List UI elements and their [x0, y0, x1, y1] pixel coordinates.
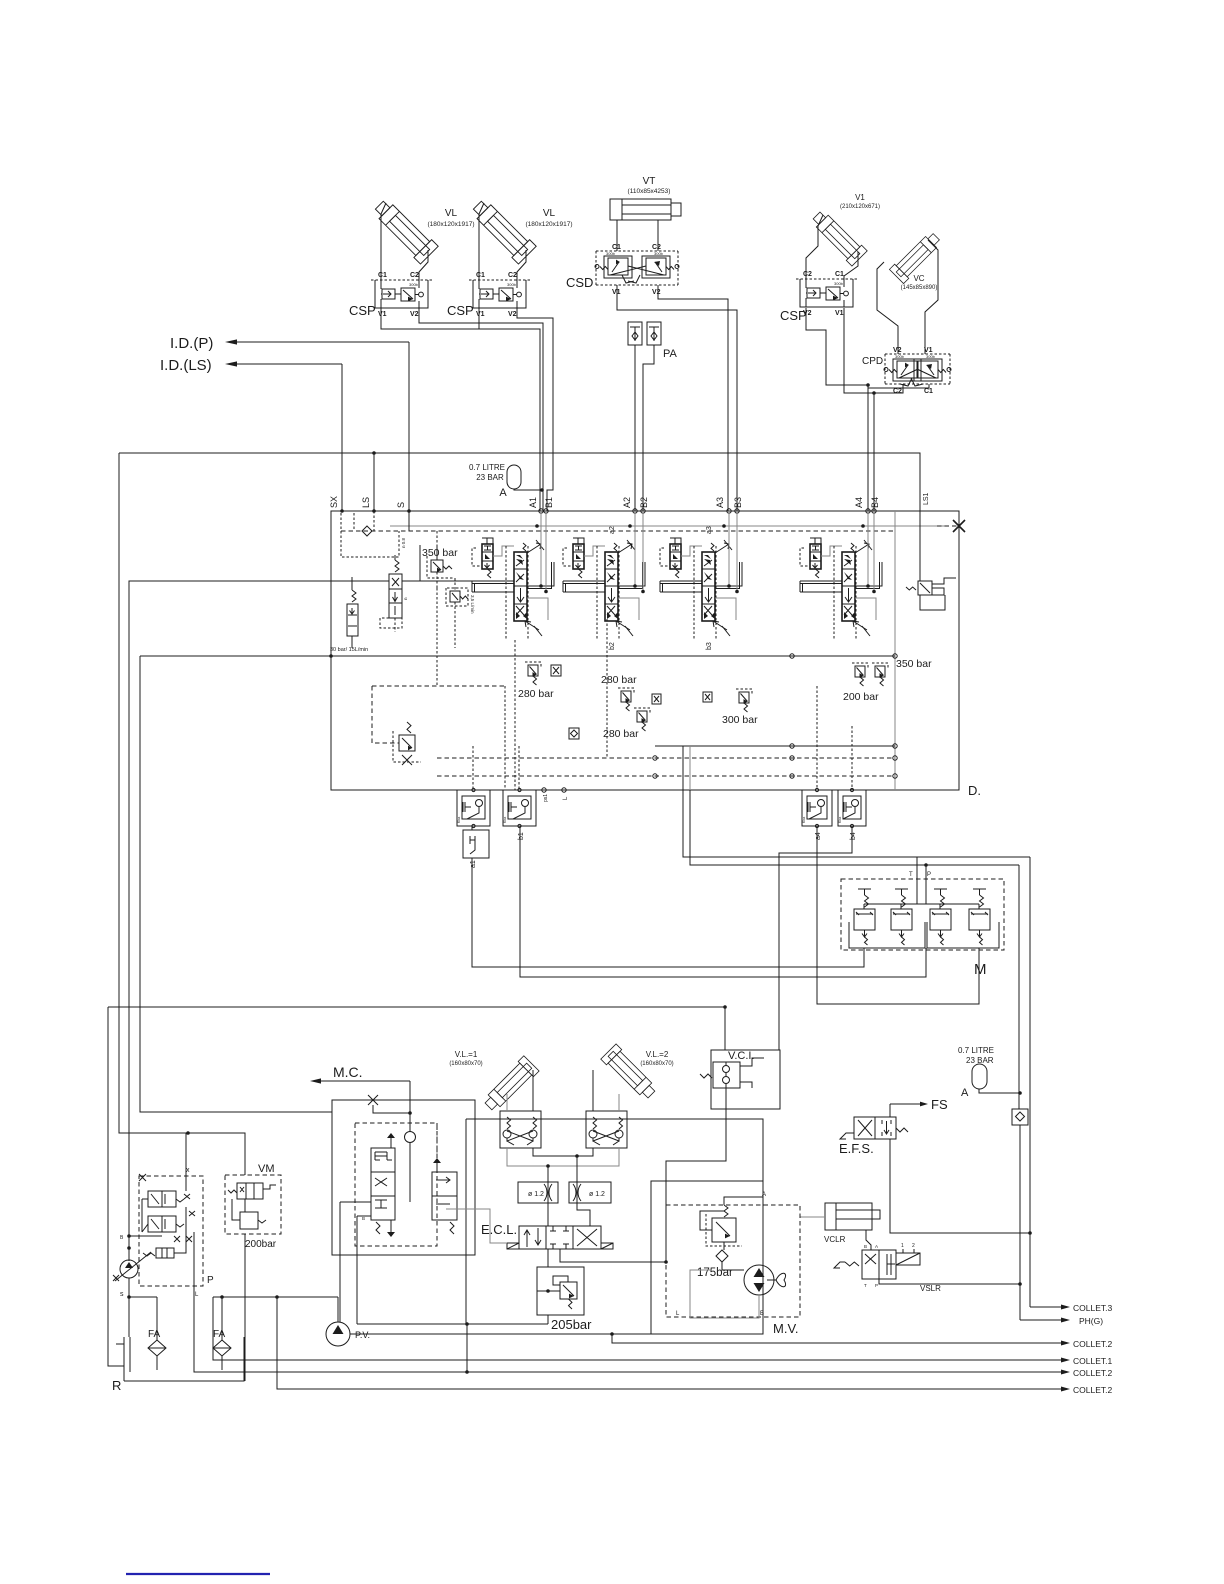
VCI box — [711, 1050, 780, 1109]
svg-text:175bar: 175bar — [697, 1267, 733, 1279]
cylinder V1 — [809, 208, 867, 266]
arrow I.D.(P) — [225, 339, 237, 344]
P block dashed box — [139, 1176, 203, 1286]
wire CSP1 V2 to A1b — [419, 308, 543, 511]
M T P drop — [916, 857, 918, 904]
M reducing valve 1 — [854, 909, 875, 930]
svg-text:C1: C1 — [378, 272, 387, 279]
manifold plug X — [937, 525, 959, 527]
cylinder VL2 — [468, 196, 536, 264]
svg-text:b4: b4 — [850, 832, 857, 840]
wire VCA to 205 line — [356, 1216, 358, 1324]
svg-text:ø 1.2: ø 1.2 — [528, 1191, 544, 1198]
manifold port dots SX LS S — [340, 509, 344, 513]
svg-text:30 bar/ 15L/min: 30 bar/ 15L/min — [330, 647, 368, 653]
tank bottom line — [130, 1337, 244, 1381]
wire PA1 to A2 — [634, 345, 636, 511]
svg-text:VL: VL — [543, 208, 556, 219]
svg-text:P: P — [875, 1283, 878, 1288]
svg-text:P: P — [207, 1275, 214, 1286]
svg-text:V.C.I.: V.C.I. — [728, 1050, 755, 1062]
svg-text:300b: 300b — [926, 354, 936, 359]
wire P bus — [690, 790, 1019, 865]
valve section 1 — [482, 544, 493, 569]
pilot dash network left — [372, 685, 505, 687]
wire PV suction — [337, 1297, 339, 1322]
wire PH(G) — [1020, 1319, 1062, 1321]
svg-text:C2: C2 — [803, 271, 812, 278]
wire COLLET.2b — [194, 1286, 1062, 1372]
svg-text:a1: a1 — [470, 860, 477, 868]
wire P riser lower — [1019, 1125, 1021, 1320]
anticav box sec3 — [703, 692, 712, 702]
svg-text:300 bar: 300 bar — [722, 714, 758, 726]
cylinder VC — [889, 230, 943, 284]
orifice box 2 — [569, 1182, 611, 1203]
wire left lower riser — [108, 1007, 124, 1366]
svg-text:A: A — [875, 1244, 878, 1249]
port circles A1 B1 — [539, 509, 543, 513]
svg-text:M.V.: M.V. — [773, 1321, 799, 1336]
relief 280bar sec2b — [637, 711, 647, 722]
svg-text:FA: FA — [148, 1329, 161, 1340]
valve block VL2 — [586, 1111, 627, 1148]
valve block CSP2 — [473, 280, 526, 308]
svg-text:(210x120x671): (210x120x671) — [840, 204, 880, 210]
svg-text:B3: B3 — [733, 497, 743, 508]
svg-text:a2: a2 — [609, 526, 616, 534]
M sub-rect left — [849, 922, 925, 948]
svg-text:COLLET.2: COLLET.2 — [1073, 1368, 1112, 1378]
cylinder VL=2 — [601, 1044, 659, 1102]
wire bus3 vci — [108, 1007, 725, 1050]
svg-text:C1: C1 — [924, 388, 933, 395]
svg-text:M: M — [974, 961, 987, 978]
svg-text:300b: 300b — [606, 251, 616, 256]
svg-text:CSP: CSP — [447, 303, 474, 318]
relief 350bar sec4a — [855, 666, 865, 677]
tank R — [123, 1337, 125, 1372]
valve block CSP3 — [800, 279, 853, 307]
205bar box — [537, 1267, 584, 1315]
cylinder VL=1 — [481, 1056, 539, 1114]
port ps1 — [542, 788, 546, 792]
wire T riser — [1029, 857, 1031, 1233]
port L — [562, 788, 566, 792]
wire a4 chain — [817, 826, 979, 1004]
svg-text:CSP: CSP — [780, 308, 807, 323]
pilot dashed riser — [436, 531, 438, 560]
valve section 4 — [810, 544, 821, 569]
M reducing valve 3 — [930, 909, 951, 930]
VCA outer box — [332, 1100, 475, 1255]
svg-text:R: R — [112, 1378, 121, 1393]
svg-text:T: T — [864, 1283, 867, 1288]
svg-text:B2: B2 — [639, 497, 649, 508]
wire PV out — [350, 1333, 612, 1335]
svg-text:FA: FA — [213, 1329, 226, 1340]
svg-text:LS1: LS1 — [923, 492, 930, 505]
svg-text:E.C.L.: E.C.L. — [481, 1222, 517, 1237]
svg-text:a4: a4 — [815, 832, 822, 840]
svg-text:300b: 300b — [895, 354, 905, 359]
svg-text:200bar: 200bar — [245, 1239, 277, 1250]
svg-text:(160x80x70): (160x80x70) — [640, 1061, 673, 1067]
svg-text:300b: 300b — [834, 281, 844, 286]
svg-text:C1: C1 — [476, 272, 485, 279]
wire MC down — [409, 1081, 411, 1113]
inlet diamond check — [362, 526, 372, 536]
manifold block D outline — [331, 511, 959, 790]
inlet spool — [389, 574, 402, 618]
svg-text:350 bar: 350 bar — [896, 658, 932, 670]
VCA out to ECL — [446, 1208, 468, 1210]
work port wires section1 — [540, 511, 542, 586]
wire tank riser to VCA — [140, 656, 332, 1112]
wire CPD C2 to B4 — [874, 384, 903, 393]
svg-text:b2: b2 — [609, 642, 616, 650]
svg-text:280 bar: 280 bar — [518, 688, 554, 700]
P solenoid valve 2 — [148, 1216, 176, 1232]
svg-text:COLLET.2: COLLET.2 — [1073, 1385, 1112, 1395]
cylinder VT — [610, 199, 671, 220]
svg-text:S: S — [396, 502, 406, 508]
wire CSP2 V1 down — [478, 308, 480, 329]
manifold LS gray bus — [390, 525, 945, 527]
M internal bus — [864, 903, 979, 905]
anticav diamond box — [569, 728, 579, 739]
svg-text:(180x120x1917): (180x120x1917) — [428, 221, 475, 228]
wire CPD C1 to A4 — [868, 384, 929, 388]
svg-text:(160x80x70): (160x80x70) — [449, 1061, 482, 1067]
wire I.D.(LS) to SX — [341, 364, 343, 511]
P spring box — [156, 1248, 174, 1258]
VCA check circle — [405, 1132, 416, 1143]
svg-text:I.D.(LS): I.D.(LS) — [160, 357, 212, 374]
unloading valve 30bar — [347, 604, 358, 636]
svg-text:V2: V2 — [893, 347, 902, 354]
wire motor buses — [507, 1148, 619, 1166]
inlet dashed box — [341, 513, 399, 557]
svg-text:CSP: CSP — [349, 303, 376, 318]
wire accumulator A to A1 — [514, 489, 542, 490]
wire EFS down — [890, 1139, 1030, 1233]
work port wires section3 — [728, 511, 730, 586]
svg-text:B1: B1 — [544, 497, 554, 508]
cylinder VCLR — [825, 1203, 872, 1230]
svg-text:C2: C2 — [410, 272, 419, 279]
VCA spool2 — [432, 1172, 457, 1220]
pilot dash to b1 — [518, 746, 520, 789]
svg-text:COLLET.3: COLLET.3 — [1073, 1303, 1112, 1313]
wire VC to CPD — [877, 262, 898, 354]
gauge PA2 — [647, 322, 661, 345]
svg-text:SX: SX — [329, 496, 339, 508]
svg-text:COLLET.2: COLLET.2 — [1073, 1339, 1112, 1349]
svg-text:Kba: Kba — [838, 817, 842, 823]
wire 205bar bottom — [547, 1315, 549, 1324]
pilot dash to a1 — [472, 746, 474, 789]
arrow I.D.(LS) — [225, 361, 237, 366]
svg-text:300b: 300b — [654, 251, 664, 256]
svg-text:V1: V1 — [612, 289, 621, 296]
relief 350bar main — [431, 560, 443, 572]
svg-text:Kba: Kba — [457, 817, 461, 823]
wire VT to CSD — [616, 220, 618, 251]
wire T bus — [683, 790, 1030, 857]
manifold dashed lower bus1 — [437, 757, 895, 759]
wire pump P riser — [129, 581, 331, 1261]
svg-text:C1: C1 — [835, 271, 844, 278]
svg-text:C2: C2 — [508, 272, 517, 279]
VM second valve — [240, 1212, 258, 1229]
svg-text:VC: VC — [913, 274, 924, 283]
manifold tank bus — [140, 655, 895, 657]
svg-text:x: x — [186, 1167, 190, 1174]
wire MV B bottom — [612, 1333, 651, 1335]
wire VCA to PV — [339, 1202, 341, 1322]
svg-text:A2: A2 — [622, 497, 632, 508]
valve block VL1 — [500, 1111, 541, 1148]
svg-text:CPD: CPD — [862, 356, 883, 367]
manifold mid bus2 — [655, 745, 895, 747]
wire VL2 cyl — [592, 1070, 594, 1111]
wire V1 to CSP3 — [806, 215, 823, 279]
cylinder VL1 — [370, 196, 438, 264]
svg-text:b3: b3 — [706, 642, 713, 650]
M reducing valve 2 — [891, 909, 912, 930]
valve block CSP1 — [375, 280, 428, 308]
wire S stub — [408, 511, 410, 531]
relief 300bar sec3 — [739, 692, 749, 703]
suction manifold line — [213, 1296, 338, 1298]
svg-text:VCLR: VCLR — [824, 1235, 846, 1244]
VM dashed box — [225, 1175, 281, 1234]
svg-text:(110x85x4253): (110x85x4253) — [628, 188, 671, 195]
wire COLLET.2c — [277, 1297, 1062, 1389]
svg-text:CSD: CSD — [566, 275, 593, 290]
svg-text:COLLET.1: COLLET.1 — [1073, 1356, 1112, 1366]
svg-text:PA: PA — [663, 348, 678, 360]
wire I.D.(P) to S — [408, 342, 410, 511]
wire CSP3 V2 to A4 — [806, 308, 868, 511]
svg-text:ø 1.2: ø 1.2 — [589, 1191, 605, 1198]
VCA X mark — [368, 1095, 378, 1105]
svg-text:V.L.=1: V.L.=1 — [455, 1050, 478, 1059]
wire COLLET.1 — [213, 1297, 1062, 1360]
wire PA2 to B2 — [643, 345, 654, 511]
svg-text:V2: V2 — [652, 289, 661, 296]
valve block CPD — [885, 353, 950, 355]
svg-text:280 bar: 280 bar — [603, 728, 639, 740]
svg-text:I.D.(P): I.D.(P) — [170, 335, 213, 352]
valve block CSD — [596, 250, 678, 252]
relief 280bar sec2a — [621, 691, 631, 702]
svg-text:VT: VT — [643, 176, 656, 187]
wire P riser right — [1018, 865, 1020, 1109]
svg-text:E.F.S.: E.F.S. — [839, 1141, 874, 1156]
svg-text:n 0.8: n 0.8 — [401, 537, 406, 548]
wire collet drop — [465, 1119, 467, 1324]
valve section 3 — [670, 544, 681, 569]
wire VL1 to CSP1 — [381, 203, 386, 280]
manifold pilot dashed bus — [341, 530, 895, 532]
svg-text:V.L.=2: V.L.=2 — [646, 1050, 669, 1059]
work port wires section2 — [634, 511, 636, 586]
wire CSP2 V2 to B1 — [517, 308, 553, 511]
MV dashed box — [666, 1205, 800, 1317]
svg-text:V1: V1 — [378, 311, 387, 318]
MV fan — [776, 1273, 786, 1287]
pilot valve b4 — [838, 790, 866, 826]
MV check diamond — [716, 1250, 728, 1262]
wire b4 chain — [779, 826, 852, 1050]
svg-text:VM: VM — [258, 1163, 275, 1175]
svg-text:A4: A4 — [854, 497, 864, 508]
wire orifice2 — [577, 1156, 590, 1226]
svg-text:B: B — [362, 1216, 365, 1221]
wire b1 chain — [520, 826, 926, 977]
svg-text:FS: FS — [931, 1097, 948, 1112]
svg-text:205bar: 205bar — [551, 1317, 592, 1332]
wire COLLET.2a — [612, 1334, 1062, 1343]
svg-text:P.V.: P.V. — [355, 1330, 370, 1340]
work port wires section4 — [867, 511, 869, 586]
svg-text:280 bar: 280 bar — [601, 674, 637, 686]
svg-text:V1: V1 — [855, 193, 865, 202]
manifold dashed lower bus2 — [437, 775, 895, 777]
VCA spool1 spring — [376, 1222, 380, 1234]
wire LS stub — [373, 511, 375, 531]
svg-text:P: P — [927, 872, 931, 878]
svg-text:2: 2 — [912, 1243, 915, 1249]
VM reducing valve — [237, 1183, 263, 1199]
svg-text:C2: C2 — [652, 244, 661, 251]
M sub-rect right — [927, 922, 999, 948]
end plate valve LS1 — [918, 581, 932, 595]
svg-text:300b: 300b — [507, 282, 517, 287]
wire CSP1 V1 to A1 — [381, 308, 540, 511]
pilot valve a4 — [802, 790, 832, 826]
port circles A3 B3 — [727, 509, 731, 513]
svg-text:(145x85x890): (145x85x890) — [901, 285, 938, 291]
wire VSLR to P riser — [879, 1279, 1020, 1284]
svg-text:D.: D. — [968, 783, 981, 798]
svg-text:V1: V1 — [835, 310, 844, 317]
svg-text:Kba: Kba — [503, 817, 507, 823]
svg-text:s: s — [120, 1291, 124, 1298]
svg-text:A3: A3 — [715, 497, 725, 508]
relief small 3.5L — [450, 591, 460, 602]
svg-text:A: A — [961, 1087, 969, 1099]
wire VM down — [244, 1234, 246, 1381]
M block dashed box — [841, 879, 1004, 950]
VCA spool2 spring — [450, 1222, 454, 1234]
svg-text:300b: 300b — [409, 282, 419, 287]
gauge PA1 — [628, 322, 642, 345]
VCI valve — [713, 1062, 740, 1088]
VCA internal wires — [340, 1201, 371, 1203]
svg-text:A: A — [499, 487, 507, 499]
svg-text:3,5 L/min: 3,5 L/min — [470, 595, 475, 614]
wire CSP3 V1 to B4 — [844, 308, 874, 511]
port circles A4 B4 — [866, 509, 870, 513]
svg-text:M.C.: M.C. — [333, 1064, 363, 1080]
svg-text:B: B — [864, 1244, 867, 1249]
MV wires — [724, 1197, 763, 1205]
anticav box sec1 — [551, 665, 561, 676]
wire COLLET.3 — [1030, 1306, 1062, 1308]
svg-text:a3: a3 — [706, 526, 713, 534]
wire LS bus — [119, 453, 920, 511]
svg-text:B4: B4 — [870, 497, 880, 508]
svg-text:ps1: ps1 — [543, 794, 549, 802]
svg-text:(180x120x1917): (180x120x1917) — [526, 221, 573, 228]
205bar valve — [560, 1282, 577, 1299]
pilot aux box — [463, 830, 489, 858]
svg-text:VSLR: VSLR — [920, 1284, 941, 1293]
pump PV — [326, 1322, 350, 1346]
svg-text:0.7 LITRE: 0.7 LITRE — [958, 1046, 994, 1055]
P X marks — [139, 1174, 146, 1181]
P internal wires — [142, 1198, 148, 1200]
svg-text:V2: V2 — [508, 311, 517, 318]
svg-text:T: T — [909, 872, 913, 878]
port circles A2 B2 — [633, 509, 637, 513]
M reducing valve 4 — [969, 909, 990, 930]
wire T riser lower — [1029, 1233, 1031, 1307]
wire a1 chain — [471, 826, 473, 830]
relief 280bar sec1 — [528, 665, 538, 676]
blue reference line — [126, 1573, 270, 1575]
MV relief 175bar — [712, 1218, 736, 1242]
wire CSD V1 to B3 — [617, 285, 737, 511]
relief 200bar sec4b — [875, 666, 885, 677]
filter FA1 — [148, 1340, 166, 1356]
pilot valve b1 — [503, 790, 536, 826]
manifold bottom-left relief — [399, 735, 415, 751]
wire L port — [193, 1232, 195, 1286]
VCA spool1 — [371, 1148, 395, 1220]
svg-text:200 bar: 200 bar — [843, 691, 879, 703]
check valve box — [1012, 1109, 1028, 1125]
MV motor — [744, 1265, 774, 1295]
wire VL2 to CSP2 — [479, 203, 484, 280]
wire left riser to VM — [119, 453, 245, 1175]
svg-text:V2: V2 — [410, 311, 419, 318]
wire VCLR left — [800, 1216, 825, 1218]
orifice box 1 — [518, 1182, 558, 1203]
svg-text:LS: LS — [361, 497, 371, 508]
wire inlet — [331, 580, 389, 582]
wire s port — [128, 1278, 130, 1337]
valve section 2 — [573, 544, 584, 569]
VCA dashed box — [355, 1123, 437, 1246]
svg-text:A: A — [762, 1192, 766, 1198]
wire ECL down — [547, 1249, 549, 1267]
wire VL1 cyl — [506, 1094, 508, 1111]
svg-text:VL: VL — [445, 208, 458, 219]
pilot valve a1 — [457, 790, 490, 826]
wire CSD V2 to A3 — [658, 285, 728, 511]
svg-text:0.7 LITRE: 0.7 LITRE — [469, 463, 505, 472]
svg-text:1: 1 — [901, 1243, 904, 1249]
pilot dash risers right — [816, 686, 818, 790]
MV solid box — [651, 1181, 763, 1334]
manifold inner boundary — [894, 511, 896, 790]
ECL valve — [519, 1226, 601, 1249]
wire LS riser — [373, 453, 375, 511]
